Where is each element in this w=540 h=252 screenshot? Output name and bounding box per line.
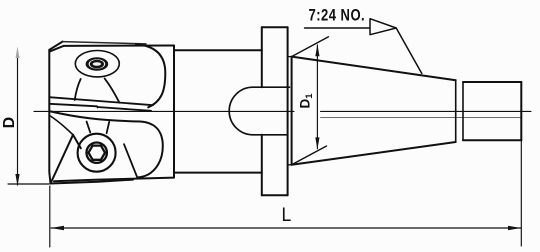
flange bottom edge (262, 194, 288, 196)
top screw iris (90, 60, 104, 69)
flange left edge upper (261, 27, 263, 87)
dimension D line (17, 55, 19, 185)
dimension D arrow down (15, 174, 19, 186)
leader underline for 7:24 label (305, 27, 396, 29)
dimension D1 oblique extension top (292, 37, 329, 57)
bottom pocket edge to insert apex (50, 116, 73, 135)
taper bottom edge (292, 142, 456, 165)
dimension D1 oblique extension bottom (292, 146, 327, 165)
insert top edge (63, 42, 147, 44)
dimension L line (51, 227, 521, 229)
svg-text:D: D (1, 117, 18, 129)
thread line (drawbar thread) (321, 117, 522, 119)
top pocket skirt left (75, 79, 81, 100)
taper top edge (292, 57, 456, 81)
bottom insert triangle right side (73, 135, 81, 149)
bottom pocket top edge and flute arc (50, 111, 162, 177)
body bottom line (174, 172, 262, 174)
bottom pocket wall right (107, 122, 110, 133)
head right edge (173, 46, 175, 178)
wedge clamp line lower left (49, 104, 97, 107)
flange top edge (262, 26, 288, 28)
dimension D1 arrow down (315, 137, 319, 149)
bottom screw outer circle (78, 134, 116, 172)
top pocket skirt right (105, 78, 120, 102)
dimension L extension right (520, 140, 522, 246)
flange right edge (287, 27, 289, 195)
bottom screw hex socket (89, 146, 106, 160)
bottom pocket inner diagonal (124, 144, 137, 177)
dimension L arrow left (51, 226, 64, 230)
svg-text:L: L (282, 203, 292, 225)
taper small end line (455, 80, 457, 142)
drive slot arc (229, 87, 253, 135)
taper step top (288, 56, 292, 58)
head chamfer top-left (49, 42, 62, 50)
pilot left edge (462, 82, 464, 140)
head bottom edge (54, 178, 174, 182)
drive slot bottom line (253, 134, 288, 136)
taper step bottom (288, 164, 292, 166)
head top edge (50, 46, 174, 52)
top screw ring (86, 57, 109, 71)
taper gauge line (291, 57, 293, 165)
pilot bottom edge (463, 139, 521, 141)
body top line (174, 49, 262, 51)
centerline axis (34, 110, 531, 112)
dimension L arrow right (508, 226, 521, 230)
bottom insert lower edge (51, 180, 134, 184)
dimension D1 arrow up (315, 44, 319, 56)
leader diagonal to taper surface (396, 28, 422, 74)
drive slot top line (253, 86, 290, 88)
top screw highlight lens (93, 62, 101, 65)
dimension L extension left (49, 186, 51, 247)
top insert screw boss outer ellipse (75, 51, 119, 77)
leader open triangle arrowhead (370, 19, 396, 35)
wedge clamp joint (96, 106, 99, 108)
top screw ring inner white (89, 59, 106, 68)
pilot top edge (463, 81, 521, 83)
bottom pocket wall left (87, 122, 91, 133)
flange left edge lower (261, 135, 263, 195)
bottom insert triangle left side (51, 135, 74, 184)
pilot right edge (520, 82, 522, 140)
top-right flute arc (136, 44, 165, 107)
cutter head outline (49, 50, 50, 184)
dimension D arrow up (16, 47, 20, 59)
bottom screw inner circle (87, 143, 107, 163)
wedge clamp line upper (49, 97, 153, 105)
svg-text:7:24 NO.: 7:24 NO. (309, 7, 366, 25)
dimension D extension line bottom (8, 183, 49, 185)
dimension D1 line (316, 45, 318, 149)
wedge clamp line lower right (98, 107, 152, 111)
